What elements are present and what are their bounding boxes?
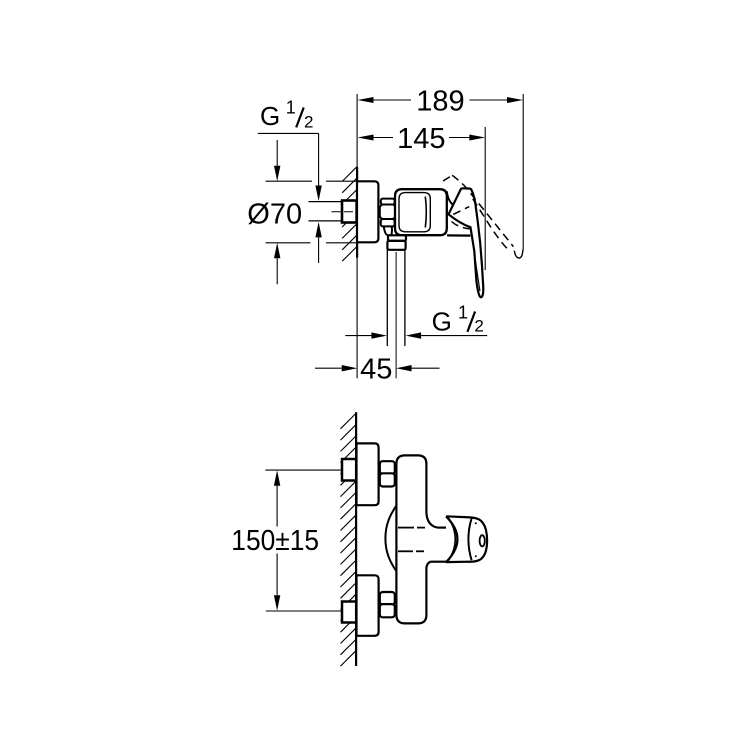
svg-text:2: 2: [474, 317, 483, 336]
escutcheon top (bottom view): [357, 443, 379, 505]
wall hatching (side view): [342, 167, 357, 261]
outlet axis / 45 extension line: [395, 252, 397, 378]
extension line right (189): [522, 94, 524, 250]
S-union nut top (bottom view): [380, 461, 395, 486]
supply pipe (side view): [309, 202, 343, 221]
lever handle (solid, down position): [449, 188, 484, 297]
extension line left (189/145): [356, 94, 358, 167]
cap tick dots: [475, 522, 477, 524]
dashed lever tip hook: [514, 250, 523, 259]
lever blade inner line: [471, 231, 480, 292]
dimension O70: [247, 140, 356, 284]
grip collar outer arc: [446, 516, 457, 562]
svg-text:145: 145: [397, 123, 445, 155]
dimension 45: [315, 354, 440, 386]
pipe axis line: [332, 211, 355, 213]
extension line right (145): [484, 127, 486, 270]
dimension 145: [358, 123, 486, 155]
wall hatching (bottom view): [341, 414, 356, 667]
wall line (side view): [356, 167, 358, 258]
dashed lever (raised position): [443, 175, 513, 248]
svg-text:189: 189: [416, 85, 464, 117]
cap separation line: [468, 518, 471, 560]
dimension G1/2 top (arrows at supply pipe): [315, 133, 321, 263]
body (bottom view): [396, 455, 426, 623]
handle grip (bottom view): [446, 516, 487, 562]
escutcheon (side view): [357, 181, 378, 242]
dimension 150+-15: [231, 470, 342, 611]
svg-text:Ø70: Ø70: [247, 199, 302, 231]
label G 1/2 (right, at outlet): [432, 302, 484, 336]
outlet flange ring 2: [387, 241, 405, 250]
S-union nut bottom (bottom view): [380, 592, 395, 617]
dome (lever base, side view): [447, 191, 457, 207]
svg-text:150±15: 150±15: [231, 525, 319, 557]
svg-text:G: G: [260, 101, 280, 131]
supply pipe stub top (behind wall): [342, 459, 356, 481]
S-union nut (side view): [380, 199, 396, 227]
dimension G1/2 right (arrows at outlet pipe): [345, 332, 487, 338]
label G 1/2 (top left): [258, 97, 319, 133]
body waist bulge: [385, 506, 396, 572]
body inner outline: [399, 193, 430, 232]
cap detail oval: [480, 535, 485, 546]
O70 extension lines: [266, 180, 312, 182]
outlet pipe (down): [387, 250, 405, 346]
body (side view): [395, 189, 447, 235]
svg-text:45: 45: [360, 354, 392, 386]
outlet flange ring 1: [388, 235, 406, 241]
handle neck (bottom view): [431, 528, 447, 562]
dimension 189: [358, 85, 524, 117]
escutcheon bottom (bottom view): [357, 575, 379, 636]
supply pipe stub bottom (behind wall): [342, 602, 356, 623]
nut-body stubs (bottom view): [395, 463, 397, 616]
dome bottom edge (under lever): [447, 234, 471, 236]
wall union back nut (side view): [342, 201, 357, 223]
neck hidden lines: [398, 528, 425, 552]
grip collar inner arc: [449, 518, 456, 561]
svg-text:1: 1: [286, 97, 296, 117]
svg-text:1: 1: [458, 302, 468, 322]
wall line (bottom view): [355, 412, 357, 666]
svg-text:2: 2: [304, 113, 313, 132]
cartridge line: [425, 197, 426, 228]
outlet connector (below S-union): [384, 226, 392, 235]
svg-text:G: G: [432, 306, 452, 336]
